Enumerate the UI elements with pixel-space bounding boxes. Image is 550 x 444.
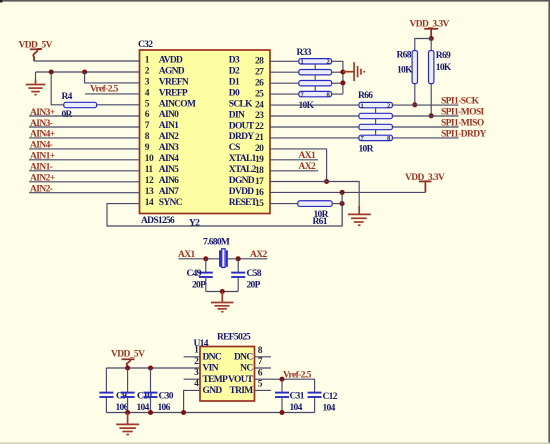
- pin 8 AIN2 (left): [145, 132, 179, 142]
- net label AIN2-: [30, 185, 53, 195]
- wire XTAL1 stub AX1: [270, 159, 318, 161]
- capacitor C10 104: [121, 368, 153, 413]
- U14 pin7 NC stub: [255, 367, 272, 369]
- pin 2 AGND (left): [145, 66, 185, 76]
- svg-text:C58: C58: [247, 269, 262, 279]
- resistor network R66 10R: [358, 91, 392, 155]
- svg-text:DNC: DNC: [234, 352, 253, 362]
- net label AIN4+: [30, 130, 55, 140]
- pin 10 AIN4 (left): [145, 154, 179, 164]
- U14 pin 1 DNC: [194, 346, 222, 363]
- svg-text:20: 20: [255, 144, 264, 154]
- sheet bottom border: [0, 443, 550, 444]
- pin 19 XTAL1 (right): [229, 154, 264, 165]
- svg-text:16: 16: [255, 188, 264, 198]
- wire SCLK to R66: [270, 104, 359, 106]
- wire D0 to R33: [270, 93, 299, 95]
- U14 pin 5 TRIM: [229, 380, 262, 397]
- svg-text:GND: GND: [203, 386, 223, 396]
- svg-text:11: 11: [145, 165, 154, 175]
- wire AIN4+ to pin 8: [29, 137, 140, 139]
- svg-text:AIN5: AIN5: [159, 165, 179, 175]
- wire RESET pin15 to R61: [270, 203, 298, 205]
- IC part number REF5025: [217, 333, 251, 343]
- svg-text:VIN: VIN: [203, 364, 219, 374]
- wire AIN3- to pin 7: [29, 126, 140, 128]
- pin 13 AIN7 (left): [145, 187, 179, 197]
- junction AX2/C58: [236, 256, 241, 261]
- pin 14 SYNC (left): [145, 198, 183, 208]
- svg-text:R66: R66: [358, 91, 373, 101]
- IC U14 REF5025 body: [200, 347, 255, 402]
- net label AIN4-: [30, 141, 53, 151]
- net label Vref-2.5 (VOUT): [283, 370, 312, 380]
- svg-text:24: 24: [255, 100, 264, 110]
- wire R33 output row 4 to common bus: [332, 93, 343, 95]
- svg-text:AGND: AGND: [159, 66, 185, 76]
- svg-text:15: 15: [255, 199, 264, 209]
- svg-text:XTAL1: XTAL1: [229, 154, 257, 164]
- resistor R4: [62, 92, 97, 120]
- wire AGND down to ground: [35, 72, 37, 80]
- power VDD_3.3V (mid right): [405, 173, 445, 193]
- wire SYNC pin14 loop to R61 node: [107, 204, 342, 226]
- svg-text:TRIM: TRIM: [229, 386, 253, 396]
- wire C49 to bottom rail: [205, 277, 207, 292]
- wire AIN1+ to pin 10: [29, 159, 140, 161]
- svg-text:18: 18: [255, 166, 264, 176]
- svg-text:104: 104: [290, 403, 303, 413]
- ground (REF5025 rail): [116, 413, 139, 435]
- svg-text:25: 25: [255, 89, 264, 99]
- wire R33 common bus: [342, 61, 344, 94]
- pin 27 D2 (right): [229, 67, 264, 78]
- capacitor C9 106: [99, 368, 128, 413]
- capacitor C12 104: [308, 392, 338, 414]
- svg-text:Vref-2.5: Vref-2.5: [283, 370, 312, 380]
- svg-text:17: 17: [255, 177, 264, 187]
- svg-text:26: 26: [255, 78, 264, 88]
- svg-text:C12: C12: [323, 392, 338, 402]
- capacitor C31 104: [275, 379, 305, 413]
- net label AX2 (chip side): [299, 162, 317, 172]
- power VDD_5V (top left): [19, 41, 53, 62]
- svg-text:27: 27: [255, 67, 264, 77]
- junction R68/SCLK: [412, 102, 417, 107]
- ground (AGND, top left): [26, 80, 46, 95]
- wire AX2 from crystal: [227, 258, 268, 260]
- wire AX2 junction down to C58: [237, 259, 239, 272]
- svg-text:2: 2: [327, 59, 330, 66]
- svg-text:XTAL2: XTAL2: [229, 165, 257, 175]
- wire AIN4- to pin 9: [29, 148, 140, 150]
- svg-text:104: 104: [323, 404, 336, 414]
- svg-text:23: 23: [255, 111, 264, 121]
- wire D1 to R33: [270, 82, 299, 84]
- junction ground rail/C10: [125, 410, 130, 415]
- junction AX1/C49: [203, 256, 208, 261]
- IC part number ADS1256: [141, 216, 175, 226]
- svg-text:REF5025: REF5025: [217, 333, 251, 343]
- wire DRDY to R66: [270, 137, 359, 139]
- svg-text:7.680M: 7.680M: [203, 238, 230, 248]
- power VDD_3.3V (top right): [410, 20, 450, 38]
- svg-text:AIN6: AIN6: [159, 176, 179, 186]
- resistor R61 10R: [298, 201, 332, 227]
- U14 pin 8 DNC: [234, 346, 263, 363]
- svg-text:DGND: DGND: [229, 176, 255, 186]
- pin 11 AIN5 (left): [145, 165, 179, 175]
- ground (DGND): [348, 206, 371, 225]
- svg-text:TEMP: TEMP: [203, 375, 229, 385]
- wire VDD_3.3V to R69 top: [430, 37, 432, 50]
- U14 pin 2 VIN: [194, 357, 219, 374]
- wire CS pin20 down to DGND net: [270, 149, 327, 182]
- pin 18 XTAL2 (right): [229, 165, 264, 176]
- wire R61 right to node: [332, 203, 342, 205]
- svg-text:NC: NC: [240, 364, 253, 374]
- net label SPI1-SCK: [441, 97, 480, 107]
- svg-text:0R: 0R: [62, 110, 73, 120]
- svg-text:DNC: DNC: [203, 352, 222, 362]
- U14 pin 7 NC: [240, 357, 263, 374]
- net label AIN1+: [30, 152, 55, 162]
- pin 15 RESET (right): [229, 198, 264, 209]
- svg-text:AIN2: AIN2: [159, 132, 179, 142]
- wire R33 output row 2 to common bus: [332, 71, 343, 73]
- wire R4 to AINCOM pin5: [97, 104, 140, 106]
- pin 24 SCLK (right): [229, 99, 264, 110]
- junction GND pin rail: [181, 410, 186, 415]
- wire Vref-2.5 to VREFP pin4: [85, 93, 140, 95]
- svg-text:AIN1: AIN1: [159, 121, 179, 131]
- svg-text:Y2: Y2: [189, 219, 200, 229]
- svg-text:AIN4: AIN4: [159, 154, 179, 164]
- pin 5 AINCOM (left): [145, 99, 196, 109]
- wire AGND junction down to VREFN pin3: [85, 72, 140, 83]
- net label AX1 (chip side): [299, 151, 317, 161]
- net label AX2 (crystal): [250, 250, 268, 260]
- net label SPI1-MISO: [441, 118, 484, 128]
- wire AIN1- to pin 11: [29, 170, 140, 172]
- IC U? ADS1256 body (designator C32): [140, 50, 271, 214]
- svg-text:VREFN: VREFN: [159, 77, 189, 87]
- svg-text:28: 28: [255, 57, 264, 67]
- wire crystal caps bottom rail: [206, 291, 238, 293]
- wire AIN2- to pin 13: [29, 192, 140, 194]
- svg-text:R61: R61: [313, 217, 328, 227]
- value label 7.680M: [203, 238, 230, 248]
- junction caps bottom / ground: [220, 289, 225, 294]
- svg-text:D1: D1: [229, 78, 240, 88]
- wire ground bottom rail: [106, 412, 314, 414]
- pin 23 DIN (right): [229, 110, 264, 121]
- wire AX1 to crystal: [178, 258, 219, 260]
- junction on AGND rail at VREFN branch: [82, 69, 87, 74]
- capacitor C58 20P: [231, 269, 262, 291]
- svg-text:12: 12: [145, 176, 154, 186]
- svg-text:SCLK: SCLK: [229, 99, 253, 109]
- crystal designator Y2: [189, 219, 200, 229]
- capacitor C30 106: [144, 368, 174, 413]
- svg-text:R4: R4: [62, 92, 73, 102]
- svg-text:D2: D2: [229, 67, 240, 77]
- pin 20 CS (right): [229, 143, 264, 154]
- svg-text:SPI1-SCK: SPI1-SCK: [441, 97, 480, 107]
- svg-text:106: 106: [158, 403, 171, 413]
- wire VOUT pin6 to C12: [255, 379, 315, 392]
- svg-text:6: 6: [258, 368, 263, 378]
- pin 28 D3 (right): [229, 56, 264, 67]
- wire R66 to SPI1-SCK: [392, 104, 458, 106]
- net label AIN1-: [30, 163, 53, 173]
- svg-text:RESET: RESET: [229, 198, 258, 208]
- ground (R33 common, rotated right): [343, 62, 364, 81]
- svg-text:CS: CS: [229, 143, 240, 153]
- wire R66 to SPI1-MISO: [392, 126, 458, 128]
- svg-text:VDD_5V: VDD_5V: [111, 349, 145, 359]
- svg-text:20P: 20P: [247, 281, 261, 291]
- junction VOUT/C31: [279, 377, 284, 382]
- sheet right border: [548, 0, 550, 444]
- svg-text:5: 5: [258, 380, 263, 390]
- U14 pin5 TRIM stub: [255, 389, 272, 391]
- svg-text:DRDY: DRDY: [229, 132, 254, 142]
- svg-text:22: 22: [255, 122, 264, 132]
- wire AGND pin2 rail: [36, 71, 140, 73]
- junction CS/DGND: [324, 179, 329, 184]
- svg-text:2: 2: [387, 102, 390, 109]
- wire DVDD pin16 to VDD_3.3V: [270, 191, 425, 193]
- junction VDD_3.3V node: [429, 36, 434, 41]
- wire DOUT to R66: [270, 126, 359, 128]
- power VDD_5V (REF5025): [111, 349, 145, 368]
- svg-text:8: 8: [258, 346, 263, 356]
- svg-text:104: 104: [137, 403, 150, 413]
- svg-text:R33: R33: [297, 48, 312, 58]
- junction R33 bus row2: [340, 69, 345, 74]
- net label AIN3+: [30, 108, 55, 118]
- wire R33 output row 1 to common bus: [332, 60, 343, 62]
- wire VIN rail (VDD_5V to pin2): [106, 367, 200, 369]
- svg-text:1: 1: [361, 102, 364, 109]
- svg-text:14: 14: [145, 198, 154, 208]
- svg-text:C32: C32: [138, 40, 153, 50]
- svg-text:R68: R68: [397, 51, 412, 61]
- svg-text:ADS1256: ADS1256: [141, 216, 175, 226]
- svg-text:C31: C31: [290, 392, 305, 402]
- svg-text:10: 10: [145, 154, 154, 164]
- junction on AGND rail at R4 branch: [49, 69, 54, 74]
- svg-text:13: 13: [145, 187, 154, 197]
- crystal Y2 7.680M: [220, 249, 227, 268]
- wire R69 bottom to DIN net: [430, 84, 432, 116]
- svg-text:AINCOM: AINCOM: [159, 99, 196, 109]
- wire XTAL2 stub AX2: [270, 170, 318, 172]
- junction R33 bus row3: [340, 80, 345, 85]
- junction ground rail/C30: [148, 410, 153, 415]
- net label AIN2+: [30, 174, 55, 184]
- pin 12 AIN6 (left): [145, 176, 179, 186]
- junction VDD_5V/C10 top: [125, 365, 130, 370]
- svg-text:DVDD: DVDD: [229, 187, 254, 197]
- svg-text:7: 7: [258, 357, 263, 367]
- svg-text:2: 2: [194, 357, 199, 367]
- pin 21 DRDY (right): [229, 132, 264, 143]
- pin 26 D1 (right): [229, 78, 264, 89]
- U14 pin3 TEMP stub: [184, 378, 200, 380]
- svg-text:10R: 10R: [359, 145, 374, 155]
- pin 3 VREFN (left): [145, 77, 189, 87]
- net label AX1 (crystal): [178, 250, 196, 260]
- junction C31 bottom: [279, 410, 284, 415]
- svg-text:19: 19: [255, 155, 264, 165]
- wire U14 GND pin4 to rail: [184, 390, 200, 412]
- svg-text:DOUT: DOUT: [229, 121, 255, 131]
- svg-text:SYNC: SYNC: [159, 198, 183, 208]
- wire AGND junction down to R4: [51, 72, 64, 105]
- svg-text:4: 4: [194, 379, 199, 389]
- svg-text:SPI1-MISO: SPI1-MISO: [441, 118, 484, 128]
- svg-text:Vref-2.5: Vref-2.5: [90, 85, 119, 95]
- wire AVDD pin1 to VDD_5V: [34, 60, 140, 62]
- junction C30 top: [148, 365, 153, 370]
- wire D3 to R33: [270, 60, 299, 62]
- junction R69/DIN: [429, 113, 434, 118]
- svg-text:AIN0: AIN0: [159, 110, 179, 120]
- svg-text:R69: R69: [436, 51, 451, 61]
- svg-text:VREFP: VREFP: [159, 88, 188, 98]
- svg-text:10K: 10K: [299, 101, 315, 111]
- wire AIN2+ to pin 12: [29, 181, 140, 183]
- svg-text:DIN: DIN: [229, 110, 245, 120]
- svg-text:VOUT: VOUT: [228, 375, 254, 385]
- junction R61 node: [340, 201, 345, 206]
- net label SPI1-MOSI: [441, 107, 485, 117]
- svg-text:C49: C49: [187, 269, 202, 279]
- wire C58 to bottom rail: [237, 277, 239, 292]
- pin 7 AIN1 (left): [145, 121, 179, 131]
- wire DGND pin17 to ground: [270, 182, 359, 208]
- wire DIN to R66: [270, 115, 359, 117]
- capacitor C49 20P: [187, 269, 213, 291]
- pin 25 D0 (right): [229, 88, 264, 99]
- pin 6 AIN0 (left): [145, 110, 179, 120]
- wire R61 node vertical: [341, 192, 343, 226]
- U14 pin 4 GND: [194, 379, 222, 396]
- svg-text:3: 3: [194, 368, 199, 378]
- pin 16 DVDD (right): [229, 187, 264, 198]
- pin 1 AVDD (left): [145, 56, 183, 66]
- resistor R68 10K: [397, 51, 418, 84]
- pin 9 AIN3 (left): [145, 143, 179, 153]
- pin 4 VREFP (left): [145, 88, 188, 98]
- IC designator U14: [194, 339, 209, 349]
- wire R66 to SPI1-MOSI: [392, 115, 458, 117]
- net label SPI1-DRDY: [441, 129, 486, 139]
- svg-text:1: 1: [301, 59, 304, 66]
- svg-text:10K: 10K: [397, 66, 413, 76]
- svg-text:SPI1-DRDY: SPI1-DRDY: [441, 129, 486, 139]
- resistor R69 10K: [429, 51, 452, 84]
- svg-text:20P: 20P: [192, 281, 206, 291]
- svg-text:C30: C30: [159, 392, 174, 402]
- svg-text:10K: 10K: [436, 63, 452, 73]
- svg-text:AVDD: AVDD: [159, 56, 183, 66]
- wire R68 bottom to SCLK net: [414, 84, 416, 105]
- svg-text:21: 21: [255, 133, 264, 143]
- wire VDD_3.3V to R68 top: [415, 39, 431, 51]
- pin 17 DGND (right): [229, 176, 264, 187]
- junction DVDD / R61 node: [340, 190, 345, 195]
- U14 pin1 DNC stub: [184, 356, 200, 358]
- pin 22 DOUT (right): [229, 121, 264, 132]
- ground (crystal caps): [211, 292, 234, 312]
- IC designator C32: [138, 40, 153, 50]
- wire AX1 junction down to C49: [205, 259, 207, 272]
- wire D2 to R33: [270, 71, 299, 73]
- svg-text:D3: D3: [229, 56, 240, 66]
- wire AIN3+ to pin 6: [29, 115, 140, 117]
- svg-text:SPI1-MOSI: SPI1-MOSI: [441, 107, 485, 117]
- U14 pin 3 TEMP: [194, 368, 228, 385]
- U14 pin 6 VOUT: [228, 368, 263, 385]
- svg-text:AIN3: AIN3: [159, 143, 179, 153]
- net label AIN3-: [30, 119, 53, 129]
- resistor network R33 10K: [297, 48, 332, 111]
- wire R33 output row 3 to common bus: [332, 82, 343, 84]
- net label Vref-2.5: [90, 85, 119, 95]
- wire R66 to SPI1-DRDY: [392, 137, 458, 139]
- svg-text:AIN7: AIN7: [159, 187, 179, 197]
- sheet top border: [0, 0, 550, 3]
- svg-text:D0: D0: [229, 88, 240, 98]
- U14 pin8 DNC stub: [255, 356, 272, 358]
